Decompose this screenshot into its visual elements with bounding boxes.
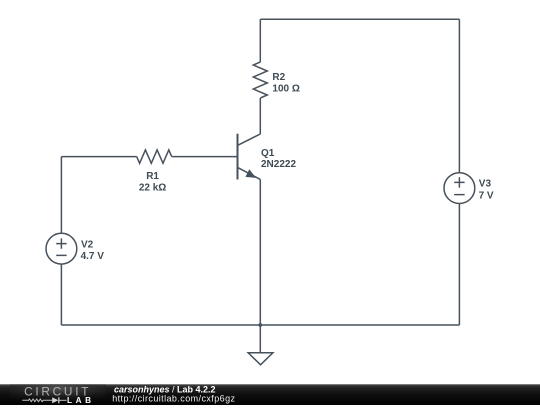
svg-text:2N2222: 2N2222 (261, 159, 296, 170)
wire right rail upper (458, 19, 460, 172)
ground (248, 325, 273, 365)
footer bar (0, 384, 540, 405)
svg-text:R1: R1 (146, 171, 159, 182)
logo CIRCUIT text (24, 385, 91, 399)
svg-text:V3: V3 (479, 178, 492, 189)
transistor Q1 (238, 134, 261, 180)
junction node (258, 323, 262, 327)
resistor R1 (137, 150, 172, 163)
wire R2 bottom / collector (259, 98, 261, 134)
wire top rail (260, 18, 459, 20)
svg-text:100 Ω: 100 Ω (272, 84, 299, 95)
voltage source V3 (444, 173, 475, 204)
label R2 (272, 72, 299, 95)
svg-text:http://circuitlab.com/cxfp6gz: http://circuitlab.com/cxfp6gz (112, 393, 235, 403)
wire left rail upper (60, 157, 62, 234)
label Q1 (261, 148, 296, 170)
svg-text:4.7 V: 4.7 V (81, 251, 105, 262)
svg-text:22 kΩ: 22 kΩ (139, 183, 166, 194)
wire emitter down (259, 179, 261, 325)
logo resistor zigzag and diode (22, 397, 66, 403)
svg-text:LAB: LAB (67, 396, 95, 405)
wire bottom rail (61, 324, 459, 326)
wire R2 top (259, 19, 261, 62)
wire base left segment (61, 156, 136, 158)
footer url (112, 393, 235, 403)
wire left rail lower (60, 264, 62, 325)
footer title (114, 385, 216, 395)
resistor R2 (253, 62, 267, 98)
logo LAB text (67, 396, 95, 405)
label V3 (479, 178, 494, 201)
label R1 (139, 171, 166, 194)
svg-text:R2: R2 (272, 72, 285, 83)
wire right rail lower (458, 204, 460, 326)
wire base right segment (172, 156, 237, 158)
svg-text:7 V: 7 V (479, 191, 494, 202)
label V2 (81, 240, 105, 263)
voltage source V2 (46, 233, 77, 264)
svg-text:Q1: Q1 (261, 148, 275, 159)
svg-text:V2: V2 (81, 240, 94, 251)
